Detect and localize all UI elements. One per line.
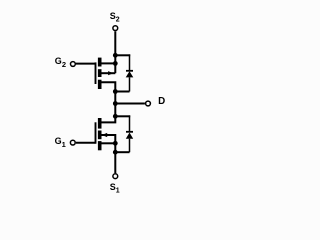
wire drain rail upper	[114, 92, 116, 117]
node Q2 drain dot	[113, 89, 118, 94]
terminal G1	[70, 140, 75, 145]
node Q2 source contact dot	[113, 61, 118, 66]
transistor Q2 P-channel MOSFET	[96, 55, 116, 91]
diode D2 body diode of Q2	[126, 71, 134, 92]
wire Q2 source contact	[102, 62, 116, 64]
arrow Q1 body (points left, N-channel)	[102, 133, 108, 137]
label D	[158, 96, 165, 107]
terminal S1	[113, 174, 118, 179]
wire Q2 source rail	[114, 55, 116, 73]
terminal G2	[71, 62, 76, 67]
node Q1 body-source dot	[113, 141, 118, 146]
label G2	[55, 56, 66, 69]
wire D lead	[115, 103, 145, 105]
wire Q1 source contact	[102, 142, 116, 144]
channel dash 1 Q2 (source)	[98, 58, 102, 67]
arrow Q2 body (points right, P-channel)	[108, 71, 113, 75]
node D junction dot	[113, 101, 118, 106]
wire diode D1 top branch	[115, 115, 130, 117]
label G1	[55, 136, 66, 149]
channel dash 3 Q2 (drain)	[98, 80, 102, 89]
wire S2 stem	[114, 31, 116, 55]
wire Q2 drain contact	[102, 82, 116, 91]
terminal S2	[113, 26, 118, 31]
channel dash 3 Q1 (source)	[98, 141, 102, 150]
diode D1 body diode of Q1	[126, 132, 133, 152]
node S2 junction dot	[113, 53, 118, 58]
wire S1 stem	[114, 152, 116, 173]
wire G2 lead	[76, 63, 96, 65]
channel dash 2 Q2 (body)	[98, 69, 102, 77]
channel dash 1 Q1 (drain)	[98, 118, 102, 129]
wire Q1 drain contact	[102, 116, 116, 122]
wire Q2 body contact with arrow	[102, 72, 116, 74]
wire diode D1 return	[115, 151, 129, 153]
wire diode D2 top branch	[115, 54, 130, 56]
wire Q1 body contact with arrow	[102, 135, 116, 143]
gate bar Q2	[95, 62, 97, 84]
wire G1 lead	[76, 142, 96, 144]
gate bar Q1	[95, 122, 97, 143]
transistor Q1 N-channel MOSFET	[96, 116, 116, 150]
terminal D	[146, 101, 151, 106]
channel dash 2 Q1 (body)	[98, 131, 102, 140]
node Q1 source dot	[113, 150, 118, 155]
label S2	[110, 11, 120, 24]
node diode D1 tap dot	[113, 114, 118, 119]
label S1	[110, 182, 120, 195]
wire diode D2 return	[115, 91, 129, 93]
wire Q1 source rail	[114, 143, 116, 152]
